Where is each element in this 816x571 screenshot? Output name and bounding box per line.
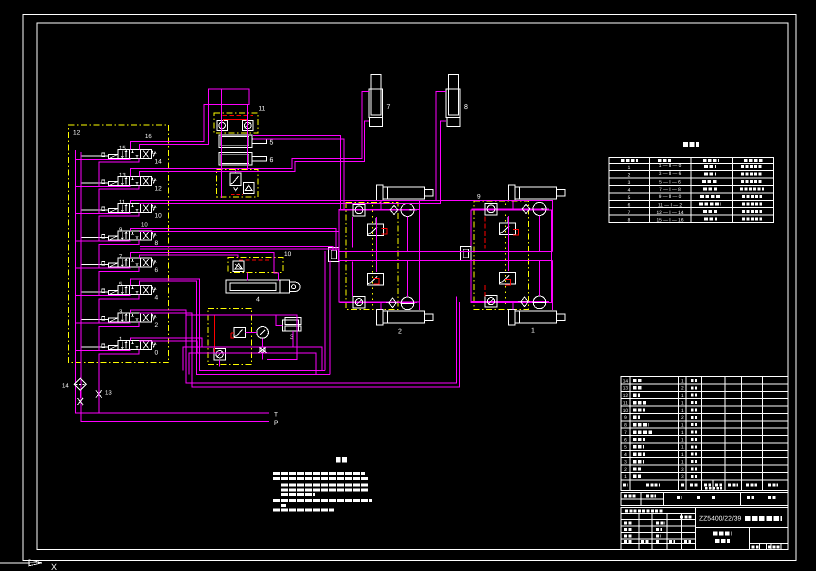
wire gauge cock drain	[262, 352, 264, 359]
wire trunk to group 9 head	[436, 201, 553, 252]
svg-text:7: 7	[387, 104, 391, 111]
wire motor 3 drop	[292, 331, 294, 347]
wire V7-A to cylinder 4 rod	[131, 252, 279, 280]
svg-text:12 — Ⅰ — 14: 12 — Ⅰ — 14	[656, 210, 683, 216]
cylinder 4	[226, 280, 300, 304]
group 2 cylinder top	[376, 185, 433, 201]
parameter table	[609, 145, 774, 224]
wire group 2 circle drop	[407, 217, 409, 298]
group 2 cylinder bottom	[376, 309, 433, 335]
svg-text:6: 6	[624, 437, 627, 443]
valve V7	[81, 254, 159, 275]
group 2 red pilot marks	[374, 228, 388, 284]
svg-text:9: 9	[477, 194, 481, 201]
wire block 11 loop	[209, 89, 250, 105]
svg-text:2: 2	[624, 467, 627, 473]
svg-text:15 — Ⅰ — 16: 15 — Ⅰ — 16	[656, 218, 683, 224]
pilot line red block 11	[223, 115, 253, 117]
svg-text:1: 1	[681, 452, 684, 458]
svg-text:16: 16	[145, 133, 152, 140]
valve V3	[81, 309, 159, 330]
group 2 manifold frame	[339, 210, 420, 303]
wire V13 return weave	[76, 186, 139, 214]
svg-text:1: 1	[681, 400, 684, 406]
wire group 2 square drop	[352, 217, 354, 297]
wire group 9 rod return	[552, 261, 554, 311]
valve V5	[81, 281, 159, 302]
svg-text:1: 1	[681, 445, 684, 451]
wire block 11 to group 2 lower	[253, 139, 344, 210]
svg-text:1: 1	[681, 437, 684, 443]
check valve in block 10	[233, 261, 244, 271]
svg-text:13: 13	[119, 172, 126, 179]
wire plug 13 stub	[98, 386, 100, 414]
svg-text:2: 2	[681, 386, 684, 392]
svg-text:11: 11	[623, 400, 628, 406]
technical notes	[273, 460, 372, 510]
actuator group 9 boundary	[474, 194, 529, 310]
wire block 10 bottom port	[246, 272, 248, 280]
svg-text:1: 1	[681, 408, 684, 414]
wire V15-B to block 11	[139, 89, 221, 150]
valve V9	[81, 227, 159, 248]
pilot red lines block 6	[231, 172, 253, 195]
svg-text:14: 14	[623, 378, 629, 384]
actuator group 2 boundary	[346, 203, 398, 310]
svg-text:14: 14	[155, 159, 163, 166]
group 9 center split line	[505, 204, 507, 307]
wire V11-B to cylinder 8	[139, 121, 446, 204]
wire V9-B to group 2 head	[139, 231, 339, 261]
svg-text:6: 6	[155, 267, 159, 274]
svg-text:6: 6	[628, 203, 631, 209]
pilot valve block 11 boundary	[214, 106, 266, 133]
svg-text:10: 10	[141, 222, 148, 229]
relief valve in pump unit	[234, 328, 246, 338]
valve V15	[81, 145, 162, 166]
svg-text:2: 2	[628, 173, 631, 179]
svg-text:3 — Ⅱ — 6: 3 — Ⅱ — 6	[659, 171, 682, 177]
svg-text:2: 2	[681, 415, 684, 421]
reducing valve in block 6	[230, 168, 241, 191]
group 9 manifold frame	[471, 210, 552, 303]
svg-text:13: 13	[623, 386, 629, 392]
wire group 2 bottom rod riser	[419, 261, 421, 311]
wire V9 return weave	[76, 240, 139, 268]
svg-text:13: 13	[105, 390, 112, 397]
wire V5-B to manifold feed	[139, 281, 330, 374]
valve V11	[81, 199, 162, 220]
wire group 2 center riser	[376, 217, 378, 272]
svg-text:15: 15	[119, 145, 126, 152]
svg-text:8: 8	[624, 423, 627, 429]
wire group 2 left riser pair	[325, 251, 330, 375]
cylinder 6	[219, 153, 274, 166]
svg-text:5: 5	[270, 140, 274, 147]
svg-text:3: 3	[628, 180, 631, 186]
svg-text:1: 1	[531, 328, 535, 335]
pilot red line block 10	[239, 259, 271, 261]
valve V1	[81, 336, 159, 357]
wire V3 return weave	[76, 322, 139, 351]
wire group 9 center riser	[508, 216, 510, 271]
valve manifold boundary 12	[69, 125, 169, 363]
valve V13	[81, 172, 162, 193]
wire pump loop inner	[189, 353, 316, 375]
svg-text:2: 2	[398, 329, 402, 336]
svg-text:6: 6	[270, 157, 274, 164]
wire group 2 rod port riser	[419, 201, 421, 248]
svg-text:3: 3	[681, 467, 684, 473]
svg-text:7: 7	[624, 430, 627, 436]
svg-text:1: 1	[681, 459, 684, 465]
svg-text:5: 5	[624, 445, 627, 451]
wire V11-A to cylinder 8	[131, 92, 447, 204]
svg-text:12: 12	[155, 186, 163, 193]
wire block 11 to group 2 upper	[253, 136, 341, 210]
svg-text:1: 1	[628, 165, 631, 171]
svg-text:9: 9	[624, 415, 627, 421]
throttle block 10 boundary	[228, 251, 291, 272]
check valve in block 6	[244, 183, 254, 194]
filter 14	[62, 378, 86, 390]
svg-text:1: 1	[681, 378, 684, 384]
wire manifold band upper	[339, 251, 553, 253]
cylinder 8	[446, 75, 468, 127]
svg-text:10: 10	[623, 408, 629, 414]
svg-text:1: 1	[681, 423, 684, 429]
svg-text:7: 7	[628, 210, 631, 216]
svg-text:14: 14	[62, 383, 69, 390]
svg-text:9 — Ⅱ — 0: 9 — Ⅱ — 0	[659, 194, 682, 200]
pump	[214, 348, 226, 360]
pressure bus P	[81, 152, 269, 421]
wire feed pair to manifold tab B	[140, 249, 339, 261]
wire V15 return weave	[76, 159, 139, 187]
wire block 11 to cylinders	[222, 113, 248, 198]
red tap relief	[231, 333, 234, 338]
tank return bus T	[76, 150, 269, 413]
pressure gauge	[257, 327, 269, 339]
svg-text:4: 4	[155, 295, 159, 302]
svg-text:8: 8	[628, 218, 631, 224]
wire V7 return weave	[76, 267, 139, 296]
motor 3	[282, 318, 301, 342]
svg-text:10: 10	[284, 251, 292, 258]
svg-text:1: 1	[681, 430, 684, 436]
svg-text:P: P	[274, 420, 278, 427]
wire V5 return weave	[76, 295, 139, 324]
group 2 valve set	[329, 203, 417, 309]
svg-text:4: 4	[624, 452, 627, 458]
svg-text:5 — Ⅰ — 6: 5 — Ⅰ — 6	[659, 180, 681, 186]
UCS icon arrow	[29, 560, 42, 566]
svg-text:X: X	[51, 562, 57, 571]
wire pump loop outer	[183, 347, 322, 371]
group 9 valve set	[461, 202, 549, 308]
wire V1-A to group 2 base	[131, 338, 203, 347]
svg-text:8: 8	[464, 104, 468, 111]
wire feed pair to manifold tab A	[140, 247, 333, 251]
title block	[621, 480, 788, 550]
wire gauge drop	[262, 338, 264, 346]
pump unit boundary	[208, 308, 252, 364]
wire V13-A to cylinder 7	[131, 92, 369, 177]
svg-text:3: 3	[681, 474, 684, 480]
group 2 center split line	[371, 205, 373, 306]
wire group 2 cylinder ports	[380, 201, 382, 310]
parts list table	[621, 377, 788, 481]
svg-text:12: 12	[73, 130, 81, 137]
wire V5-A to manifold feed	[131, 279, 326, 370]
svg-text:4: 4	[256, 297, 260, 304]
group 9 cylinder top	[509, 185, 566, 201]
wire V9-A to group 2 head	[131, 229, 337, 252]
svg-text:11: 11	[119, 199, 126, 206]
cylinder 7	[369, 75, 391, 127]
svg-text:3: 3	[624, 459, 627, 465]
svg-text:11: 11	[259, 106, 266, 113]
plug 13	[78, 390, 113, 406]
wire pump pressure out	[186, 315, 297, 360]
svg-text:4: 4	[628, 188, 631, 194]
wire V3-B to group 9 base	[139, 302, 459, 387]
wire filter 14 drop	[79, 390, 81, 398]
svg-text:1: 1	[681, 393, 684, 399]
gauge cock	[258, 347, 267, 353]
wire relief to gauge	[246, 331, 257, 333]
svg-text:2: 2	[155, 322, 159, 329]
wire pump to motor 3	[276, 315, 282, 326]
group 9 red pilot lines	[484, 216, 486, 296]
wire manifold band lower	[339, 260, 553, 262]
wire V7-B to block 10	[139, 255, 238, 258]
wire V1 return weave	[76, 350, 139, 413]
UCS icon axis line	[0, 562, 30, 564]
pilot check right of block 11	[243, 121, 253, 131]
svg-text:10: 10	[155, 213, 163, 220]
wire pump to tank	[219, 360, 221, 367]
wire V15-A to block 11	[131, 105, 248, 150]
wire group 9 circle drop	[539, 216, 541, 297]
svg-text:12: 12	[623, 393, 629, 399]
svg-text:1 — Ⅱ — 0: 1 — Ⅱ — 0	[659, 163, 682, 169]
svg-text:1: 1	[624, 474, 627, 480]
svg-text:ZZ5400/22/39: ZZ5400/22/39	[699, 516, 742, 523]
pilot check left of block 11	[217, 121, 227, 131]
wire V3-A to group 9 base	[131, 297, 457, 384]
svg-text:11 — Ⅰ — 2: 11 — Ⅰ — 2	[658, 203, 682, 209]
svg-text:5: 5	[628, 195, 631, 201]
svg-text:T: T	[274, 412, 278, 419]
cylinder 5	[219, 135, 274, 148]
wire V1-B to group 2 base	[139, 340, 197, 353]
wire V13-B to cylinder 7	[139, 121, 368, 176]
reducing valve block 6 boundary	[217, 169, 258, 197]
pilot red line pump unit	[214, 315, 222, 352]
wire V11 return weave	[76, 213, 139, 242]
svg-text:0: 0	[155, 350, 159, 357]
svg-text:8: 8	[155, 240, 159, 247]
wire group 9 cylinder ports	[512, 201, 514, 310]
svg-text:7 — Ⅰ — 8: 7 — Ⅰ — 8	[659, 187, 681, 193]
group 9 cylinder bottom	[509, 309, 566, 334]
